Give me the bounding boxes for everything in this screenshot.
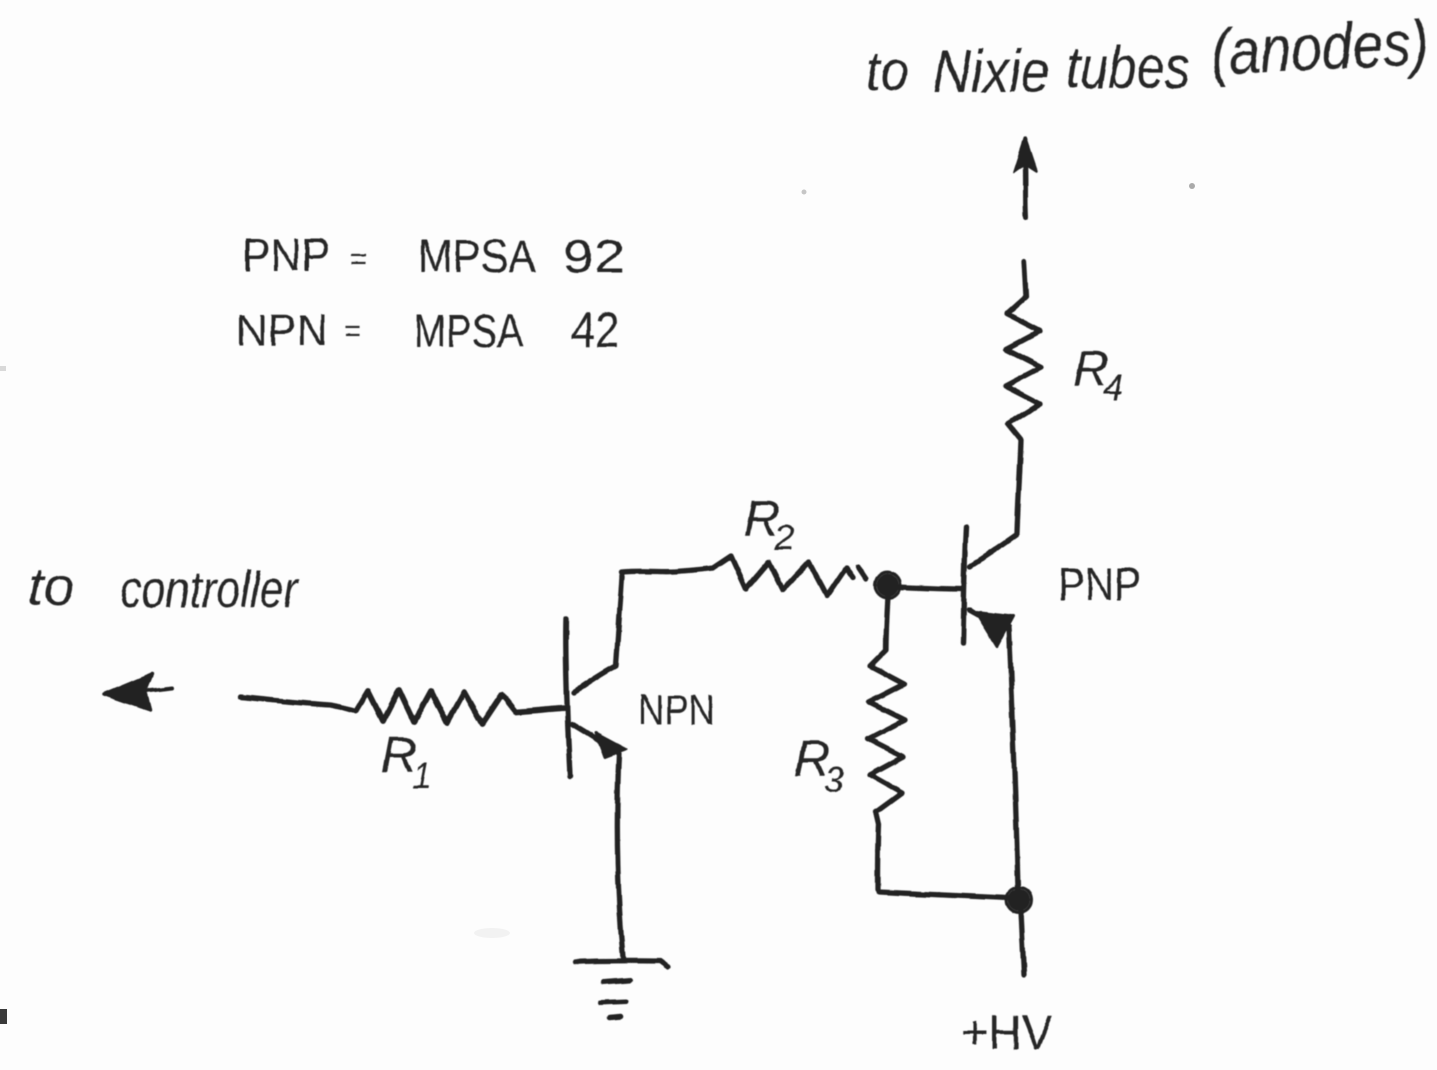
svg-text:92: 92 [563, 230, 625, 282]
svg-text:PNP: PNP [242, 229, 330, 281]
svg-text:controller: controller [120, 561, 300, 619]
svg-text:MPSA: MPSA [418, 230, 536, 282]
wire NPN emitter down to ground [617, 753, 623, 958]
arrowhead nixie [1014, 138, 1036, 172]
arrow to controller [146, 688, 172, 691]
svg-text:tubes: tubes [1066, 34, 1190, 101]
wire top arrow to nixie tubes [1025, 158, 1026, 217]
svg-text:NPN: NPN [638, 686, 715, 733]
wire node to +HV [1021, 911, 1024, 975]
NPN emitter arrow [596, 733, 626, 757]
svg-text:+HV: +HV [961, 1007, 1053, 1060]
svg-text:MPSA: MPSA [414, 305, 523, 357]
svg-text:1: 1 [412, 755, 432, 796]
wire tick before node [858, 567, 866, 579]
scan mark left edge bottom [0, 1009, 7, 1024]
faint scan mark left edge middle [0, 366, 6, 371]
svg-text:3: 3 [824, 759, 844, 800]
resistor R4 [1005, 261, 1041, 533]
wire junction to PNP base [899, 587, 963, 589]
node junction dot (PNP emitter / R3 / +HV) [1008, 889, 1030, 911]
svg-text:4: 4 [1103, 367, 1123, 408]
svg-text:NPN: NPN [236, 306, 328, 355]
faint scan speck right [1189, 183, 1195, 189]
PNP emitter with arrow [969, 610, 978, 615]
wire input to R1 [241, 697, 356, 711]
wire NPN collector to R2 [621, 568, 713, 577]
node junction dot (base of PNP / R2 / R3) [877, 574, 900, 597]
resistor R1 [356, 690, 566, 724]
wire PNP emitter to +HV node [1009, 627, 1018, 890]
svg-text:2: 2 [773, 517, 794, 558]
svg-text:Nixie: Nixie [933, 38, 1050, 105]
faint scan speck middle [802, 190, 807, 195]
svg-text:to: to [866, 39, 909, 102]
resistor R3 [868, 596, 905, 890]
wire R3 bottom to node [879, 892, 1008, 898]
resistor R2 [713, 556, 853, 596]
PNP emitter arrow [976, 612, 1013, 646]
svg-text:42: 42 [571, 302, 619, 358]
svg-text:PNP: PNP [1058, 558, 1141, 610]
svg-text:(anodes): (anodes) [1209, 7, 1430, 88]
svg-text:=: = [350, 243, 368, 276]
PNP collector (to R4) [970, 535, 1016, 566]
NPN collector [574, 577, 622, 692]
transistor Q1 NPN bar [566, 618, 570, 776]
svg-text:=: = [344, 315, 362, 348]
faint smudge [474, 928, 510, 938]
svg-text:to: to [28, 557, 75, 617]
transistor Q2 PNP bar [963, 527, 966, 643]
NPN emitter [572, 724, 601, 742]
ground [575, 961, 668, 967]
